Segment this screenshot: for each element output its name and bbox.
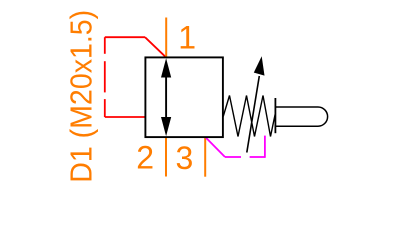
svg-text:D1 (M20x1.5): D1 (M20x1.5) — [63, 10, 98, 183]
svg-text:3: 3 — [176, 140, 194, 176]
svg-text:1: 1 — [178, 19, 196, 55]
svg-text:2: 2 — [136, 140, 154, 176]
